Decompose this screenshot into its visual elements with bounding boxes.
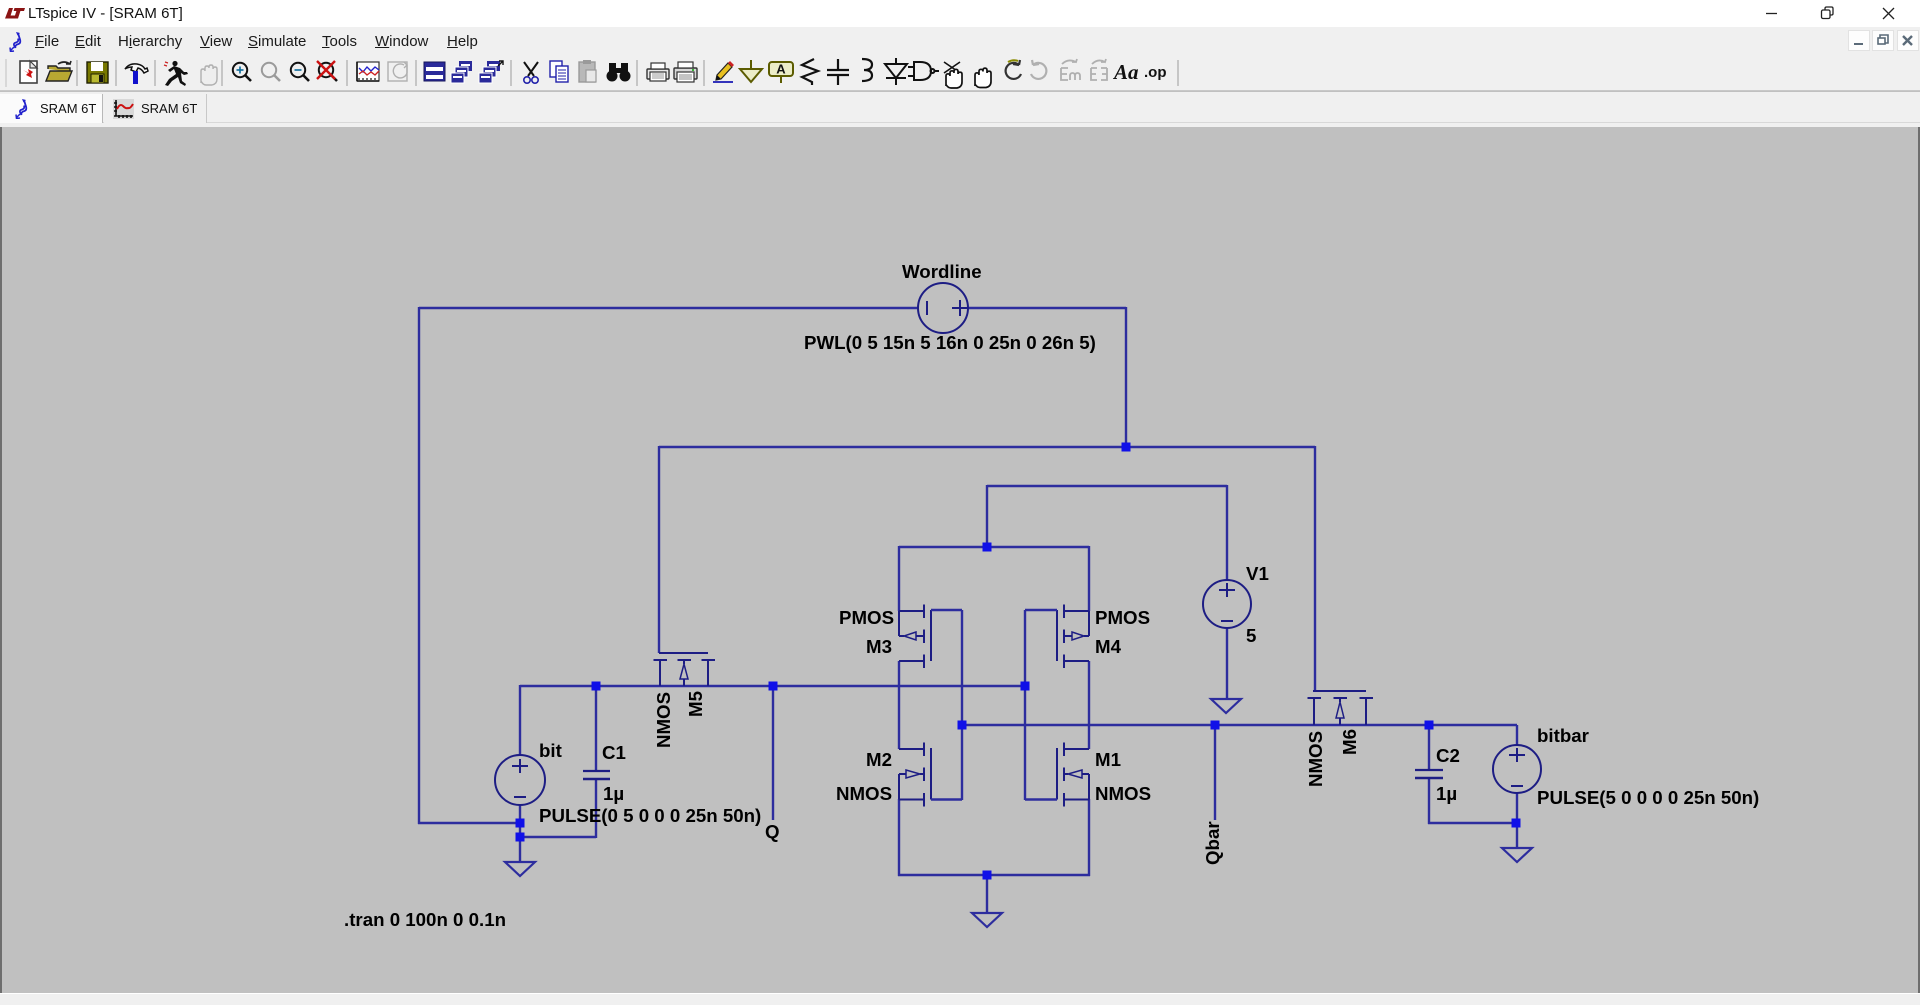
- wire Q stub: [772, 686, 774, 820]
- svg-text:M4: M4: [1095, 636, 1122, 657]
- status bar: [0, 993, 1920, 1005]
- wire left gates vertical: [961, 610, 963, 800]
- title bar: [0, 0, 1920, 27]
- svg-text:Qbar: Qbar: [1202, 821, 1223, 865]
- wire right gates vertical: [1024, 610, 1026, 800]
- wire M6 gate drop: [1314, 446, 1316, 691]
- svg-text:bitbar: bitbar: [1537, 725, 1589, 746]
- wire Qbar stub: [1214, 725, 1216, 820]
- svg-text:PMOS: PMOS: [839, 607, 894, 628]
- node junction Qbar / left gates: [958, 721, 967, 730]
- svg-text:M5: M5: [685, 691, 706, 717]
- wire V1 bottom: [1226, 628, 1228, 698]
- waveform tab: [104, 94, 207, 123]
- svg-text:1µ: 1µ: [1436, 783, 1457, 804]
- wire bitbar top: [1516, 725, 1518, 746]
- svg-text:C1: C1: [602, 742, 626, 763]
- wire right inverter output: [1088, 661, 1090, 749]
- wire M5 gate drop: [658, 446, 660, 653]
- svg-text:5: 5: [1246, 625, 1256, 646]
- svg-text:Aa: Aa: [1112, 60, 1139, 84]
- wire bit bottom: [519, 804, 521, 862]
- transistor M3 (PMOS): [923, 605, 925, 619]
- wire left rail bottom: [418, 822, 521, 824]
- svg-text:M1: M1: [1095, 749, 1121, 770]
- svg-text:PWL(0 5 15n 5 16n 0 25n 0 26n: PWL(0 5 15n 5 16n 0 25n 0 26n 5): [804, 332, 1096, 353]
- svg-text:M6: M6: [1339, 729, 1360, 755]
- wire M2 source down: [898, 799, 900, 876]
- ground V1: [1211, 699, 1241, 713]
- svg-text:PULSE(0 5 0 0 0 25n 50n): PULSE(0 5 0 0 0 25n 50n): [539, 805, 761, 826]
- wire wordline right: [968, 307, 1126, 309]
- schematic tab (active): [0, 94, 103, 123]
- svg-text:Q: Q: [765, 821, 780, 842]
- wire C1 bottom: [595, 780, 597, 838]
- node junction gnd rail: [983, 871, 992, 880]
- voltage source V1: [1203, 580, 1251, 628]
- node junction C2 top: [1425, 721, 1434, 730]
- node Qbar row: [962, 724, 1517, 726]
- mdi minimize button: [1848, 30, 1870, 51]
- svg-text:1µ: 1µ: [603, 783, 624, 804]
- svg-text:M2: M2: [866, 749, 892, 770]
- node junction bit rail: [516, 819, 525, 828]
- svg-text:.op: .op: [1144, 64, 1167, 81]
- node Q row: [520, 685, 1025, 687]
- svg-text:M3: M3: [866, 636, 892, 657]
- mdi close button: [1897, 30, 1919, 51]
- transistor M6 (NMOS): [1308, 697, 1322, 699]
- node junction Q / right gates: [1021, 682, 1030, 691]
- capacitor C1: [583, 770, 610, 772]
- wire ground rail: [898, 874, 1090, 876]
- voltage source bit: [495, 755, 545, 805]
- wire gate rail: [659, 446, 1315, 448]
- toolbar: [0, 56, 1920, 91]
- wire C2 to bitbar gnd: [1428, 822, 1517, 824]
- wire left rail: [418, 307, 420, 824]
- wire C2 bottom: [1428, 779, 1430, 824]
- wire M4 source up: [1088, 546, 1090, 611]
- node junction wordline/gate rail: [1122, 443, 1131, 452]
- svg-text:NMOS: NMOS: [1095, 783, 1151, 804]
- svg-text:PMOS: PMOS: [1095, 607, 1150, 628]
- svg-text:bit: bit: [539, 740, 562, 761]
- wire left inverter output: [898, 661, 900, 749]
- wire vdd rail: [987, 485, 1227, 487]
- wire C2 top: [1428, 725, 1430, 770]
- wire wordline top-left: [419, 307, 918, 309]
- svg-text:V1: V1: [1246, 563, 1269, 584]
- ground bit: [505, 862, 535, 876]
- node junction Qbar stub: [1211, 721, 1220, 730]
- voltage source Wordline (rotated): [918, 283, 968, 333]
- wire bitbar bottom: [1516, 793, 1518, 848]
- capacitor C2: [1415, 769, 1443, 771]
- node junction Q stub: [769, 682, 778, 691]
- svg-text:.tran 0 100n 0 0.1n: .tran 0 100n 0 0.1n: [344, 909, 506, 930]
- node junction vdd rail: [983, 543, 992, 552]
- transistor M5 (NMOS): [654, 659, 668, 661]
- menu bar: [0, 27, 1920, 56]
- svg-text:Wordline: Wordline: [902, 261, 982, 282]
- node junction bitbar gnd: [1512, 819, 1521, 828]
- svg-text:NMOS: NMOS: [653, 692, 674, 748]
- ground center: [972, 913, 1002, 927]
- wire gnd stub center: [986, 875, 988, 912]
- svg-text:PULSE(5 0 0 0 0 25n 50n): PULSE(5 0 0 0 0 25n 50n): [1537, 787, 1759, 808]
- svg-text:NMOS: NMOS: [836, 783, 892, 804]
- wire inverter supply rail: [899, 546, 1089, 548]
- wire M3 source up: [898, 546, 900, 611]
- wire vdd drop: [986, 485, 988, 547]
- voltage source bitbar: [1493, 745, 1541, 793]
- transistor M1 (NMOS): [1063, 743, 1065, 757]
- wire C1 to gnd node: [519, 836, 596, 838]
- wire wordline drop: [1125, 307, 1127, 447]
- window restore button: [1806, 0, 1852, 27]
- window close button: [1865, 0, 1911, 27]
- wire bit top: [519, 685, 521, 756]
- svg-text:NMOS: NMOS: [1305, 731, 1326, 787]
- tab bar: [0, 92, 1920, 127]
- svg-text:C2: C2: [1436, 745, 1460, 766]
- mdi restore button: [1872, 30, 1894, 51]
- wire C1 top: [595, 686, 597, 771]
- transistor M2 (NMOS): [923, 743, 925, 757]
- ground bitbar: [1502, 848, 1532, 862]
- node junction C1 top: [592, 682, 601, 691]
- wire M1 source down: [1088, 799, 1090, 876]
- transistor M4 (PMOS): [1063, 605, 1065, 619]
- node junction bit gnd: [516, 833, 525, 842]
- wire V1 top: [1226, 485, 1228, 581]
- svg-text:A: A: [776, 62, 786, 77]
- window minimize button: [1748, 0, 1794, 27]
